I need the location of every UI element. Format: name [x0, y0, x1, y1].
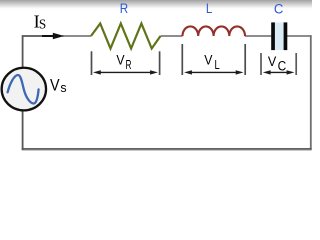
AC voltage source Vs — [2, 68, 46, 111]
svg-text:s: s — [60, 80, 67, 95]
label VR — [116, 52, 131, 71]
wire: inductor to capacitor — [245, 35, 272, 37]
VC measure arrow — [263, 70, 295, 74]
node R right delimiter — [159, 51, 161, 75]
resistor R — [91, 24, 161, 49]
VL measure arrow — [184, 70, 243, 74]
node L right delimiter — [244, 44, 246, 75]
svg-text:L: L — [215, 57, 220, 72]
svg-text:C: C — [278, 59, 287, 74]
label VC — [268, 53, 287, 74]
svg-text:V: V — [204, 52, 213, 68]
svg-text:V: V — [268, 53, 277, 69]
label Is — [34, 11, 47, 31]
svg-text:C: C — [274, 1, 284, 17]
svg-text:V: V — [50, 76, 60, 95]
node R left delimiter — [91, 51, 93, 75]
wire: resistor to inductor — [161, 35, 183, 37]
node C left delimiter — [260, 53, 262, 75]
VR measure arrow — [93, 70, 158, 74]
wire: source top stub and top-left corner to arrow tail — [23, 36, 48, 67]
svg-text:R: R — [120, 1, 128, 17]
wire: right vertical return — [310, 35, 312, 150]
svg-text:V: V — [116, 52, 125, 68]
wire: source bottom stub — [22, 110, 24, 150]
svg-text:R: R — [126, 57, 132, 72]
capacitor C — [271, 22, 287, 50]
node L left delimiter — [181, 44, 183, 75]
wire: capacitor to top-right corner — [287, 35, 312, 37]
current arrow Is — [42, 33, 64, 39]
wire: bottom return — [22, 148, 312, 150]
svg-text:S: S — [39, 17, 46, 32]
node C right delimiter — [295, 53, 297, 75]
inductor L — [183, 26, 246, 36]
label VL — [204, 52, 220, 71]
label Vs — [50, 76, 67, 95]
svg-text:L: L — [206, 1, 212, 17]
wire: top segment from arrow to resistor — [62, 35, 91, 37]
